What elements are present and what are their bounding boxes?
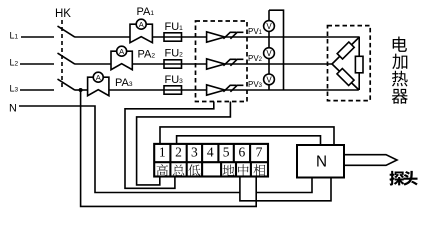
svg-text:3: 3 xyxy=(191,144,198,159)
svg-text:1: 1 xyxy=(159,144,166,159)
svg-text:V: V xyxy=(266,49,272,58)
svg-text:A: A xyxy=(119,47,124,56)
svg-text:A: A xyxy=(139,20,144,29)
svg-text:HK: HK xyxy=(55,8,71,20)
svg-text:2: 2 xyxy=(175,144,182,159)
svg-text:V: V xyxy=(266,22,272,31)
svg-text:N: N xyxy=(9,103,17,115)
svg-text:A: A xyxy=(96,73,101,82)
svg-text:N: N xyxy=(316,154,327,171)
svg-text:5: 5 xyxy=(223,144,230,159)
svg-text:6: 6 xyxy=(239,144,246,159)
svg-text:7: 7 xyxy=(256,144,263,159)
svg-text:4: 4 xyxy=(207,144,214,159)
svg-text:V: V xyxy=(266,75,272,84)
